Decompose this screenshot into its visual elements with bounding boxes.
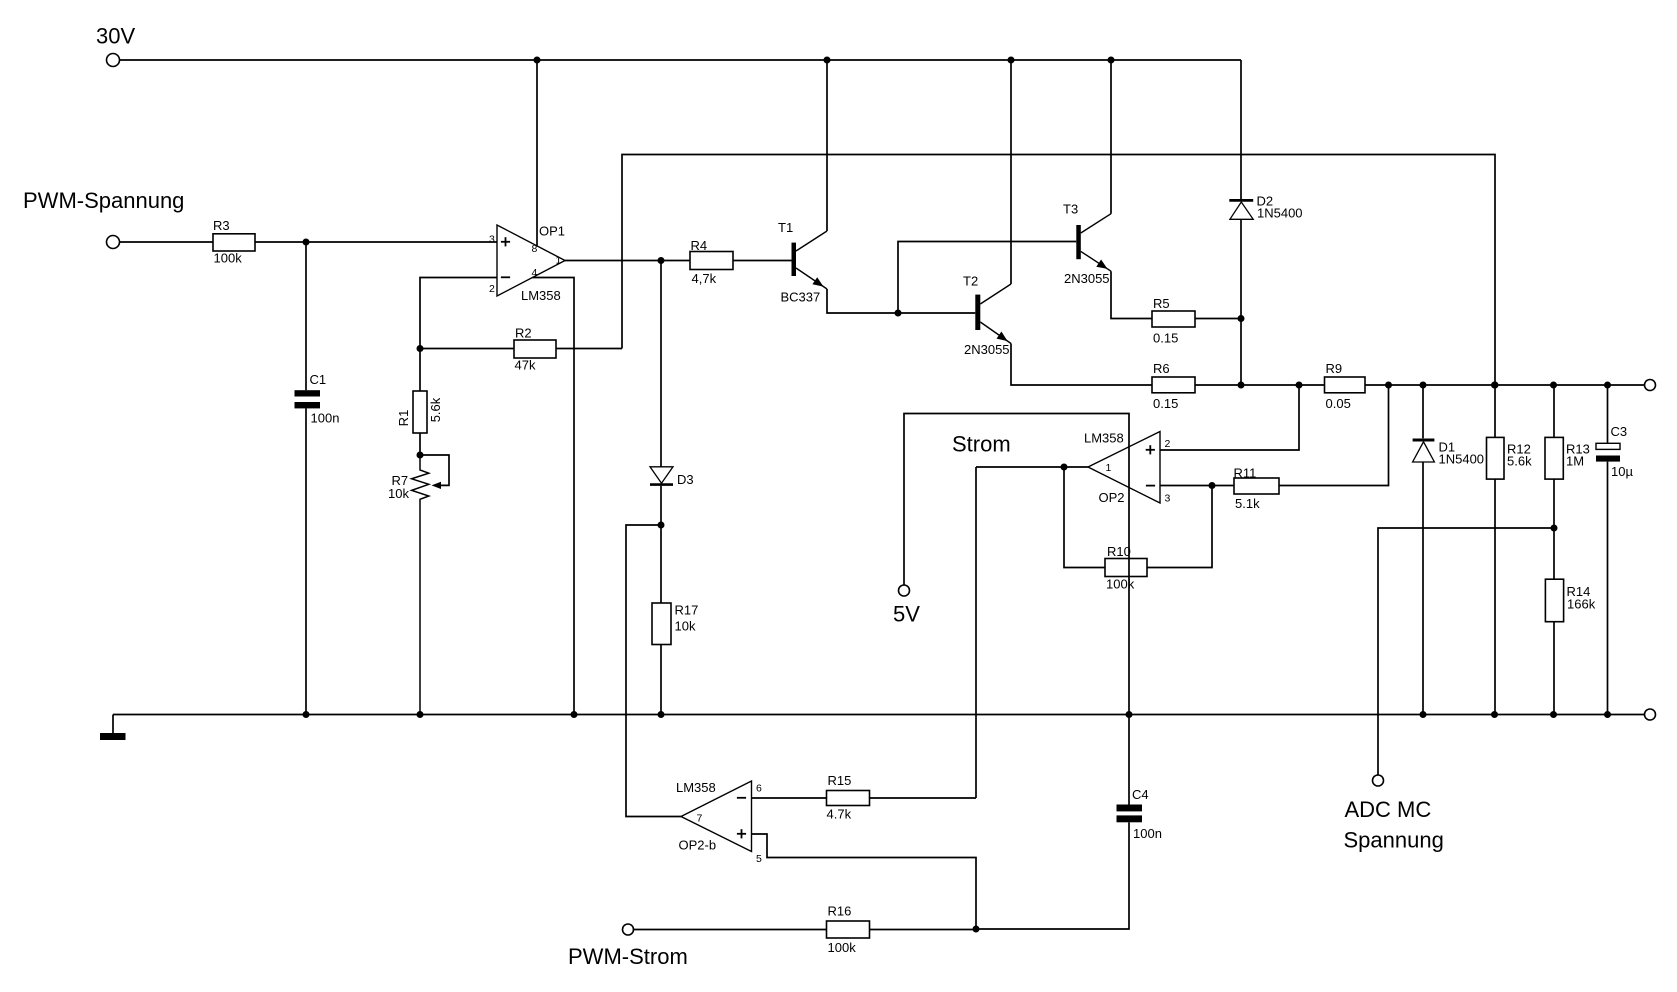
- svg-text:0.15: 0.15: [1153, 331, 1178, 346]
- op-amp OP1 pin 1: [556, 255, 562, 267]
- wire PWM-Spannung to R3: [120, 241, 214, 243]
- svg-text:1N5400: 1N5400: [1257, 206, 1303, 221]
- svg-text:R10: R10: [1107, 544, 1131, 559]
- op-amp OP1 pin 3: [489, 234, 495, 246]
- wire D3 anode branch: [660, 261, 662, 467]
- svg-text:C4: C4: [1132, 787, 1149, 802]
- ground symbol: [100, 733, 126, 740]
- label ADC MC: [1345, 797, 1432, 822]
- wire OP2 inverting input: [1160, 485, 1234, 487]
- terminal 30V: [96, 24, 135, 67]
- wire R15 to OP2 output riser: [870, 797, 977, 799]
- svg-text:6: 6: [756, 783, 762, 795]
- wire OP2 output to R15: [975, 467, 977, 798]
- terminal 5V: [893, 585, 920, 627]
- junction D1/output rail: [1420, 382, 1427, 389]
- svg-text:3: 3: [489, 234, 495, 246]
- svg-text:LM358: LM358: [1084, 431, 1124, 446]
- wire T3 collector to 30V: [1110, 60, 1112, 214]
- svg-text:10k: 10k: [675, 619, 696, 634]
- junction C1/ground: [303, 711, 310, 718]
- svg-text:R17: R17: [675, 603, 699, 618]
- op-amp OP2-b pin 7: [697, 813, 703, 825]
- terminal PWM-Spannung: [23, 188, 184, 249]
- wire R16 to C4 node: [870, 929, 977, 931]
- svg-text:2: 2: [489, 283, 495, 295]
- wire D2 anode to output rail: [1240, 219, 1242, 385]
- diode D1: [1413, 440, 1484, 467]
- svg-text:R9: R9: [1326, 361, 1343, 376]
- junction 30V/T3 collector: [1108, 57, 1115, 64]
- svg-text:BC337: BC337: [781, 290, 821, 305]
- wire T3 base link: [898, 242, 1076, 314]
- svg-text:100k: 100k: [214, 251, 243, 266]
- junction R13/R14/ADC node: [1551, 525, 1558, 532]
- op-amp OP2 pin 3: [1165, 493, 1171, 505]
- svg-text:R4: R4: [691, 238, 708, 253]
- svg-text:47k: 47k: [515, 357, 536, 372]
- junction R1/R2/OP1 node: [417, 345, 424, 352]
- junction feedback/output rail: [1492, 382, 1499, 389]
- wire T1 collector to 30V: [826, 60, 828, 231]
- svg-text:R11: R11: [1234, 466, 1257, 481]
- svg-text:R5: R5: [1153, 296, 1170, 311]
- junction 30V/OP1 pin8: [534, 57, 541, 64]
- resistor R14: [1545, 579, 1595, 714]
- transistor T1: [778, 220, 827, 305]
- junction T1 emitter/T3 base branch: [895, 310, 902, 317]
- svg-text:LM358: LM358: [521, 288, 561, 303]
- wire R4 to T1 base: [733, 260, 792, 262]
- junction R16/OP2-b +IN/C4 node: [973, 926, 980, 933]
- wire R3 to OP1 noninverting input: [255, 241, 497, 243]
- resistor R1: [396, 349, 443, 456]
- svg-text:2N3055: 2N3055: [1064, 271, 1110, 286]
- junction R12/ground: [1491, 711, 1498, 718]
- wire 30V rail: [120, 60, 1242, 199]
- svg-text:30V: 30V: [96, 24, 135, 49]
- wire output rail R6 to R9: [1195, 384, 1325, 386]
- junction R7/ground: [417, 711, 424, 718]
- resistor R5: [1152, 296, 1195, 346]
- junction R13/output rail: [1550, 382, 1557, 389]
- terminal output voltage: [1645, 380, 1656, 391]
- wire OP2 noninverting sense: [1160, 385, 1299, 450]
- wire OP1 V- pin4 to ground: [532, 278, 574, 715]
- label Strom: [952, 432, 1011, 457]
- resistor R11: [1234, 466, 1280, 512]
- svg-text:100n: 100n: [311, 411, 340, 426]
- svg-text:R15: R15: [828, 773, 852, 788]
- label ADC Spannung: [1344, 828, 1444, 853]
- wire OP1 output to R4: [565, 260, 690, 262]
- op-amp OP2 pin 2: [1165, 438, 1171, 450]
- terminal ground right: [1645, 709, 1656, 720]
- junction D3/R17/OP2-b node: [658, 522, 665, 529]
- svg-text:5.6k: 5.6k: [1507, 454, 1532, 469]
- svg-text:5: 5: [756, 853, 762, 865]
- wire D1 anode to ground: [1422, 462, 1424, 715]
- resistor R12: [1487, 385, 1533, 715]
- svg-text:OP2-b: OP2-b: [679, 838, 717, 853]
- svg-text:100n: 100n: [1133, 826, 1162, 841]
- op-amp OP2 pin 1: [1106, 462, 1112, 474]
- svg-text:D3: D3: [677, 472, 694, 487]
- wire ground rail: [113, 715, 1645, 734]
- wire OP2-b inverting input to R15: [752, 797, 827, 799]
- svg-text:PWM-Strom: PWM-Strom: [568, 944, 688, 969]
- junction D2/output rail: [1238, 382, 1245, 389]
- resistor R4: [690, 238, 733, 286]
- capacitor C4: [976, 787, 1162, 929]
- svg-text:100k: 100k: [828, 940, 857, 955]
- svg-text:2N3055: 2N3055: [964, 342, 1010, 357]
- terminal ADC MC: [1373, 775, 1384, 786]
- wire OP1 inverting input to R1/R2 node: [420, 278, 497, 349]
- svg-text:Spannung: Spannung: [1344, 828, 1444, 853]
- wire 5V riser: [904, 414, 1129, 805]
- svg-text:T3: T3: [1063, 201, 1078, 216]
- wire C3 bottom lead: [1607, 462, 1609, 715]
- wire T2 collector to 30V: [1010, 60, 1012, 284]
- op-amp OP1: [497, 223, 565, 303]
- svg-text:C1: C1: [310, 372, 327, 387]
- junction R14/ground: [1550, 711, 1557, 718]
- junction OP2 -IN/R10 node: [1209, 482, 1216, 489]
- wire T1 emitter to T2 base: [827, 289, 975, 313]
- svg-text:ADC MC: ADC MC: [1345, 797, 1432, 822]
- wire C3 top lead: [1607, 385, 1609, 443]
- wire D3 cathode to node: [660, 486, 662, 525]
- svg-text:7: 7: [697, 813, 703, 825]
- svg-text:T2: T2: [963, 273, 978, 288]
- wire output rail R9 to terminal: [1365, 384, 1645, 386]
- svg-text:R16: R16: [828, 904, 852, 919]
- svg-text:5.6k: 5.6k: [428, 397, 443, 422]
- op-amp OP1 pin 2: [489, 283, 495, 295]
- resistor R15: [827, 773, 870, 822]
- svg-text:1N5400: 1N5400: [1439, 452, 1485, 467]
- svg-text:2: 2: [1165, 438, 1171, 450]
- junction 30V/T1 collector: [824, 57, 831, 64]
- resistor R10: [1064, 467, 1212, 591]
- junction R12/output rail: [1491, 382, 1498, 389]
- svg-text:T1: T1: [778, 220, 793, 235]
- svg-text:100k: 100k: [1106, 576, 1135, 591]
- transistor T2: [963, 273, 1011, 357]
- junction C3/output rail: [1604, 382, 1611, 389]
- svg-text:166k: 166k: [1567, 597, 1596, 612]
- resistor R9: [1325, 361, 1366, 411]
- op-amp OP1 pin 8: [532, 243, 538, 255]
- diode D3: [650, 467, 694, 487]
- wire ADC sense: [1378, 528, 1554, 775]
- op-amp OP2: [1084, 431, 1160, 506]
- svg-text:1: 1: [556, 255, 562, 267]
- svg-text:OP2: OP2: [1099, 490, 1125, 505]
- resistor R13: [1545, 385, 1590, 579]
- wire OP2-b noninverting input: [752, 834, 977, 929]
- junction OP1 pin4/ground: [571, 711, 578, 718]
- wire OP2-b output to D3 node: [626, 525, 681, 817]
- op-amp OP2-b pin 6: [756, 783, 762, 795]
- junction R3/C1 node: [303, 239, 310, 246]
- svg-text:LM358: LM358: [676, 780, 716, 795]
- junction R5/D2 node: [1238, 315, 1245, 322]
- resistor R3: [213, 218, 255, 266]
- capacitor C1: [295, 242, 340, 715]
- transistor T3: [1063, 201, 1111, 286]
- svg-text:0.05: 0.05: [1326, 396, 1351, 411]
- svg-text:5.1k: 5.1k: [1235, 496, 1260, 511]
- svg-text:1M: 1M: [1566, 454, 1584, 469]
- junction OP2 +IN sense: [1296, 382, 1303, 389]
- junction OP1 output/D3 branch: [658, 257, 665, 264]
- junction D1/ground: [1420, 711, 1427, 718]
- junction riser/ground rail: [1126, 711, 1133, 718]
- svg-text:4,7k: 4,7k: [692, 271, 717, 286]
- svg-text:3: 3: [1165, 493, 1171, 505]
- svg-text:R6: R6: [1153, 361, 1170, 376]
- wire R2 to feedback riser: [556, 348, 622, 350]
- junction R11 sense/output rail: [1385, 382, 1392, 389]
- wire T2 emitter to R6: [1011, 344, 1152, 386]
- wire PWM-Strom to R16: [634, 929, 827, 931]
- svg-text:OP1: OP1: [539, 223, 565, 238]
- wire D1 cathode lead: [1422, 385, 1424, 438]
- svg-text:C3: C3: [1611, 424, 1628, 439]
- wire R11 to output rail: [1279, 385, 1389, 486]
- svg-text:R3: R3: [213, 218, 230, 233]
- wire T3 emitter to R5: [1111, 271, 1152, 318]
- svg-text:1: 1: [1106, 462, 1112, 474]
- svg-text:5V: 5V: [893, 602, 920, 627]
- resistor R16: [827, 904, 870, 956]
- resistor R17: [652, 525, 698, 715]
- svg-text:0.15: 0.15: [1153, 396, 1178, 411]
- svg-text:4.7k: 4.7k: [827, 807, 852, 822]
- op-amp OP2-b: [676, 780, 752, 852]
- wire R5 to D2 cathode line: [1195, 318, 1241, 320]
- diode D2: [1229, 193, 1302, 220]
- junction R1/R7 node: [417, 452, 424, 459]
- op-amp OP1 pin 4: [532, 267, 538, 279]
- svg-text:R2: R2: [515, 325, 532, 340]
- wire voltage feedback net: [622, 155, 1495, 386]
- svg-text:Strom: Strom: [952, 432, 1011, 457]
- junction C3/ground: [1604, 711, 1611, 718]
- resistor R6: [1152, 361, 1195, 411]
- wire OP1 V+ pin8 to 30V: [536, 60, 538, 246]
- capacitor C3: [1596, 424, 1633, 479]
- potentiometer R7: [388, 455, 449, 715]
- op-amp OP2-b pin 5: [756, 853, 762, 865]
- wire OP2 output: [976, 464, 1088, 471]
- terminal PWM-Strom: [568, 924, 688, 969]
- junction 30V/T2 collector: [1008, 57, 1015, 64]
- svg-text:10µ: 10µ: [1611, 464, 1633, 479]
- junction R17/ground: [658, 711, 665, 718]
- svg-text:10k: 10k: [388, 486, 409, 501]
- svg-text:PWM-Spannung: PWM-Spannung: [23, 188, 184, 213]
- svg-text:R1: R1: [396, 410, 411, 427]
- resistor R2: [420, 325, 556, 372]
